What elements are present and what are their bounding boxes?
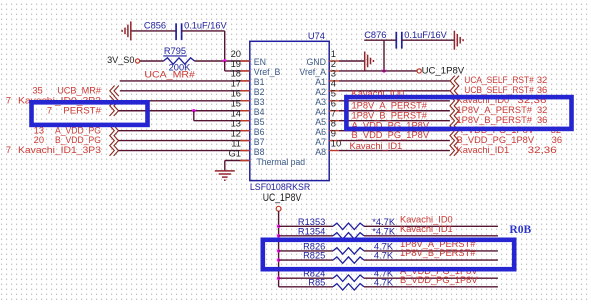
- svg-text:7: 7: [6, 95, 11, 105]
- wire R824 to net A_VDD_PG_1P8V: [364, 277, 498, 279]
- pin 7 (A5) right stub: [315, 108, 339, 127]
- highlight box around PERST#: [32, 102, 148, 125]
- svg-text:UCB_MR#: UCB_MR#: [57, 85, 102, 95]
- svg-text:B7: B7: [254, 137, 265, 147]
- svg-text:GND: GND: [306, 57, 326, 67]
- power net label UC_1P8V rail for resistor network: [263, 192, 302, 211]
- junction node C876/UC_1P8V: [382, 69, 385, 72]
- svg-text:B5: B5: [254, 117, 265, 127]
- svg-text:0.1uF/16V: 0.1uF/16V: [184, 20, 227, 30]
- pin 10 (A8) right stub: [315, 137, 341, 156]
- wire PERST# branch down to pin B5: [194, 111, 250, 121]
- capacitor C876 0.1uF/16V: [364, 30, 447, 49]
- pin 17 (B2) left stub: [231, 78, 265, 97]
- ground for pin 1: [365, 52, 374, 71]
- net label Kavachi_ID0 on R1353: [400, 214, 453, 224]
- off-page connector A_VDD_PG_1P8V pages 32: [450, 125, 561, 136]
- svg-text:B_VDD_PG_1P8V: B_VDD_PG_1P8V: [400, 275, 478, 285]
- wire bus to R85: [279, 286, 333, 288]
- svg-text:35: 35: [32, 85, 42, 95]
- pin 4 (A2) right stub: [315, 78, 339, 97]
- svg-text:U74: U74: [308, 31, 325, 41]
- svg-text:Kavachi_ID0: Kavachi_ID0: [400, 214, 453, 224]
- wire thermal pad G1 to ground: [225, 161, 250, 171]
- wire R825 to net 1P8V_B_PERST#: [364, 259, 498, 261]
- svg-text:1P8V_A_PERST#: 1P8V_A_PERST#: [352, 100, 428, 110]
- net label B_VDD_PG_1P8V on R85: [400, 275, 478, 285]
- note text R0B: [509, 223, 531, 236]
- pin 18 (B1) left stub: [231, 68, 265, 87]
- wire A_VDD_PG to pin B6: [119, 130, 250, 132]
- pin 6 (A4) right stub: [315, 98, 339, 117]
- svg-text:C856: C856: [144, 20, 166, 30]
- wire pin 3 to off-page connector UCA_SELF_RST#: [339, 80, 450, 82]
- wire ground to C856 left plate: [132, 30, 177, 32]
- junction node bus/R1353: [277, 225, 280, 228]
- net label UCA_MR#: [144, 70, 195, 80]
- svg-text:B_VDD_PG: B_VDD_PG: [55, 135, 101, 145]
- svg-text:C876: C876: [364, 30, 386, 40]
- off-page connector Kavachi_ID1_3P3 page 7: [6, 145, 119, 156]
- svg-text:B6: B6: [254, 127, 265, 137]
- wire pin 5 to off-page connector Kavachi_ID0: [339, 100, 450, 102]
- off-page connector 1P8V_A_PERST# pages 32: [450, 105, 548, 116]
- net label Kavachi_ID1 on pin 10 wire: [350, 141, 403, 151]
- wire bus to R1353: [279, 225, 333, 227]
- svg-text:10: 10: [331, 137, 341, 148]
- wire pin 8 to off-page connector A_VDD_PG_1P8V: [339, 130, 450, 132]
- wire junction down to Vref_B pin 19: [225, 61, 250, 71]
- wire pin 1 GND to ground: [339, 60, 365, 62]
- wire 3V_S0 to R795: [140, 60, 164, 62]
- off-page connector Kavachi_ID0_3P3 page 7: [6, 95, 119, 106]
- svg-text:A4: A4: [315, 107, 326, 117]
- svg-text:A8: A8: [315, 147, 326, 157]
- pin 13 (B6) left stub: [231, 117, 265, 136]
- svg-text:R825: R825: [303, 251, 325, 261]
- svg-text:R1354: R1354: [298, 226, 325, 236]
- svg-text:Kavachi_ID1: Kavachi_ID1: [400, 224, 453, 234]
- wire B_VDD_PG to pin B7: [119, 140, 250, 142]
- wire bus to R826: [279, 250, 333, 252]
- wire bus to R825: [279, 259, 333, 261]
- net label A_VDD_PG_1P8V on R824: [400, 266, 478, 276]
- pin G1 (Thermal pad) stub: [228, 147, 305, 167]
- svg-text:36: 36: [552, 135, 562, 145]
- off-page connector B_VDD_PG_1P8V pages 36: [450, 135, 562, 146]
- wire R795 to IC pin EN: [195, 60, 250, 62]
- svg-text:B_VDD_PG_1P8V: B_VDD_PG_1P8V: [457, 135, 535, 145]
- ground for thermal pad: [215, 171, 235, 180]
- wire bus to R824: [279, 277, 333, 279]
- wire pin 10 to off-page connector Kavachi_ID1: [339, 150, 450, 152]
- wire pin 9 to off-page connector B_VDD_PG_1P8V: [339, 140, 450, 142]
- off-page connector PERST# page 7: [47, 105, 119, 116]
- svg-text:Kavachi_ID1_3P3: Kavachi_ID1_3P3: [18, 145, 101, 155]
- net label 3V_S0: [107, 55, 140, 65]
- junction node 3V_S0/C856/EN: [223, 59, 226, 62]
- junction node bus/R826: [277, 249, 280, 252]
- svg-text:UC_1P8V: UC_1P8V: [263, 192, 302, 204]
- off-page connector Kavachi_ID1 pages 32,36: [450, 145, 557, 156]
- net label Kavachi_ID0 on pin 5 wire: [352, 88, 405, 98]
- wire R826 to net 1P8V_A_PERST#: [364, 250, 498, 252]
- svg-text:A2: A2: [315, 87, 326, 97]
- net label 1P8V_A_PERST# on R826: [400, 239, 476, 249]
- wire C876 right plate to ground: [402, 39, 455, 41]
- wire UCA_MR# to pin B1: [120, 80, 250, 82]
- highlight box around R826/R825: [263, 240, 514, 269]
- wire C876 left lead down to UC_1P8V rail: [383, 40, 385, 71]
- wire UC_1P8V vertical bus: [278, 211, 280, 287]
- svg-text:EN: EN: [254, 57, 266, 67]
- pin 19 (Vref_B) left stub: [231, 58, 281, 77]
- svg-text:*4.7K: *4.7K: [372, 226, 396, 236]
- svg-text:UCA_SELF_RST#: UCA_SELF_RST#: [464, 75, 534, 85]
- wire pin 4 to off-page connector UCB_SELF_RST#: [339, 90, 450, 92]
- off-page connector A_VDD_PG page 13: [34, 125, 119, 136]
- pin 15 (B4) left stub: [231, 98, 265, 117]
- junction node bus/R824: [277, 277, 280, 280]
- power net label UC_1P8V at pin 2: [417, 65, 465, 75]
- svg-text:20: 20: [34, 135, 44, 145]
- resistor R85 4.7K: [308, 277, 394, 290]
- svg-text:1P8V_B_PERST#: 1P8V_B_PERST#: [400, 248, 476, 258]
- svg-text:R85: R85: [308, 277, 325, 287]
- svg-text:4.7K: 4.7K: [374, 251, 394, 261]
- wire R85 to net B_VDD_PG_1P8V: [364, 286, 498, 288]
- resistor R825 4.7K: [303, 251, 394, 264]
- svg-text:B8: B8: [254, 147, 265, 157]
- off-page connector UCB_MR# page 35: [32, 85, 118, 96]
- svg-text:32,36: 32,36: [528, 145, 557, 155]
- svg-text:B2: B2: [254, 87, 265, 97]
- svg-text:1P8V_B_PERST#: 1P8V_B_PERST#: [457, 115, 533, 125]
- wire pin 7 to off-page connector 1P8V_B_PERST#: [339, 120, 450, 122]
- svg-text:Vref_A: Vref_A: [299, 67, 326, 77]
- svg-text:A6: A6: [315, 127, 326, 137]
- svg-text:B4: B4: [254, 107, 265, 117]
- off-page connector UCA_SELF_RST# pages 32: [450, 75, 547, 86]
- highlight box around 1P8V_A_PERST#/1P8V_B_PERST# pins: [346, 97, 571, 129]
- pin 20 (EN) left stub: [231, 48, 266, 67]
- svg-text:36: 36: [537, 85, 547, 95]
- pin 2 (Vref_A) right stub: [299, 58, 338, 77]
- IC U74 LSF0108RKSR body: [250, 31, 329, 193]
- net label 1P8V_B_PERST# on pin 7 wire: [352, 110, 428, 120]
- resistor R795 200K: [163, 46, 194, 72]
- svg-text:Kavachi_ID1: Kavachi_ID1: [350, 141, 403, 151]
- wire pin 6 to off-page connector 1P8V_A_PERST#: [339, 110, 450, 112]
- wire PERST# to pin B4: [119, 110, 250, 112]
- pin 5 (A3) right stub: [315, 88, 339, 107]
- svg-text:3V_S0: 3V_S0: [107, 55, 134, 65]
- svg-text:A5: A5: [315, 117, 326, 127]
- wire R1353 to net Kavachi_ID0: [364, 225, 498, 227]
- net label B_VDD_PG_1P8V on pin 9 wire: [352, 130, 430, 140]
- wire Kavachi_ID1_3P3 to pin B8: [119, 150, 250, 152]
- svg-text:B3: B3: [254, 97, 265, 107]
- junction node bus/R1354: [277, 234, 280, 237]
- pin 12 (B7) left stub: [231, 127, 265, 146]
- svg-text:B_VDD_PG_1P8V: B_VDD_PG_1P8V: [352, 130, 430, 140]
- pin 14 (B5) left stub: [231, 108, 265, 127]
- svg-text:A3: A3: [315, 97, 326, 107]
- resistor R826 4.7K: [303, 241, 394, 254]
- junction node bus/R825: [277, 258, 280, 261]
- wire UCB_MR# to pin B2: [120, 90, 250, 92]
- wire C856 right plate to junction above EN: [182, 31, 225, 61]
- svg-text:7: 7: [6, 145, 11, 155]
- net label A_VDD_PG_1P8V on pin 8 wire: [352, 120, 430, 130]
- svg-text:1P8V_B_PERST#: 1P8V_B_PERST#: [352, 110, 428, 120]
- resistor R824 4.7K: [303, 269, 394, 282]
- ground (power rail return) for C856: [122, 21, 131, 40]
- wire Kavachi_ID0_3P3 to pin B3: [119, 100, 250, 102]
- pin 8 (A6) right stub: [315, 117, 339, 136]
- svg-text:R1353: R1353: [298, 217, 325, 227]
- net label 1P8V_B_PERST# on R825: [400, 248, 476, 258]
- off-page connector Kavachi_ID0 pages 32,36: [450, 95, 547, 106]
- net label 1P8V_A_PERST# on pin 6 wire: [352, 100, 428, 110]
- svg-text:B1: B1: [254, 77, 265, 87]
- svg-text:UCB_SELF_RST#: UCB_SELF_RST#: [464, 85, 534, 95]
- svg-text:0.1uF/16V: 0.1uF/16V: [404, 30, 447, 40]
- net label Kavachi_ID1 on R1354: [400, 224, 453, 234]
- svg-text:R0B: R0B: [509, 223, 531, 236]
- svg-text:Kavachi_ID1: Kavachi_ID1: [457, 145, 510, 155]
- pin 16 (B3) left stub: [231, 88, 265, 107]
- svg-text:Vref_B: Vref_B: [254, 67, 281, 77]
- svg-text:R795: R795: [164, 46, 186, 56]
- svg-text:4.7K: 4.7K: [374, 277, 394, 287]
- svg-text:7: 7: [47, 105, 52, 115]
- pin 3 (A1) right stub: [315, 68, 339, 87]
- resistor R1353 *4.7K: [298, 217, 396, 230]
- svg-text:UCA_MR#: UCA_MR#: [144, 70, 195, 80]
- ground for C876: [454, 31, 463, 50]
- svg-text:*4.7K: *4.7K: [372, 217, 396, 227]
- pin 1 (GND) right stub: [306, 48, 338, 67]
- svg-text:Thermal pad: Thermal pad: [257, 157, 306, 167]
- svg-text:1P8V_A_PERST#: 1P8V_A_PERST#: [457, 105, 533, 115]
- resistor R1354 *4.7K: [298, 226, 396, 239]
- svg-text:UC_1P8V: UC_1P8V: [422, 65, 465, 75]
- junction node PERST# branch: [192, 109, 195, 112]
- off-page connector 1P8V_B_PERST# pages 36: [450, 115, 548, 126]
- svg-text:A7: A7: [315, 137, 326, 147]
- off-page connector UCB_SELF_RST# pages 36: [450, 85, 547, 96]
- svg-text:PERST#: PERST#: [63, 105, 102, 115]
- wire R1354 to net Kavachi_ID1: [364, 235, 498, 237]
- pin 9 (A7) right stub: [315, 127, 339, 146]
- svg-text:G1: G1: [228, 147, 241, 158]
- svg-text:36: 36: [537, 115, 547, 125]
- svg-text:32: 32: [537, 75, 547, 85]
- svg-text:A1: A1: [315, 77, 326, 87]
- wire pin 2 Vref_A to UC_1P8V: [339, 70, 417, 72]
- off-page connector B_VDD_PG page 20: [34, 135, 119, 146]
- svg-text:32: 32: [537, 105, 547, 115]
- pin 11 (B8) left stub: [231, 137, 264, 156]
- wire bus to R1354: [279, 235, 333, 237]
- capacitor C856 0.1uF/16V: [144, 20, 228, 40]
